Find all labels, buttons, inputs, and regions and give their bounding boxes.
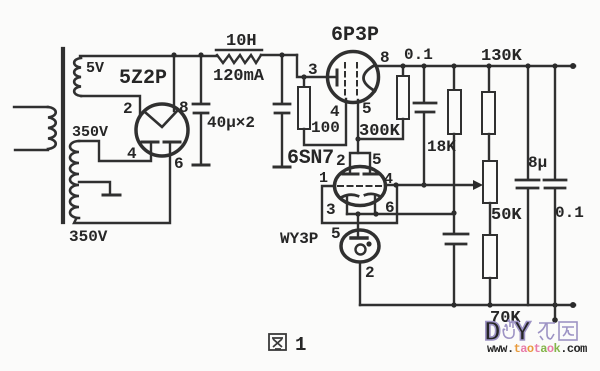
capacitor cathode bypass lead: [453, 213, 455, 233]
wiper arrowhead: [473, 180, 483, 190]
svg-text:10H: 10H: [226, 32, 257, 51]
resistor 300K body: [397, 76, 409, 119]
resistor 300K top lead: [402, 66, 404, 76]
node rail 0.1: [421, 63, 426, 68]
5Z2P plate bar left pin4: [142, 141, 158, 144]
wire rail corner down to 6P3P plate: [297, 55, 336, 77]
node rail 300K: [400, 63, 405, 68]
svg-text:40µ×2: 40µ×2: [207, 114, 255, 132]
svg-text:5V: 5V: [86, 60, 104, 77]
svg-text:6: 6: [174, 155, 184, 173]
svg-text:5: 5: [331, 225, 341, 243]
svg-text:300K: 300K: [359, 122, 401, 141]
wire cathode line: [347, 213, 454, 215]
potentiometer 50K body: [483, 161, 497, 203]
capacitor 40u no.2 top lead: [281, 55, 283, 103]
svg-text:0.1: 0.1: [555, 204, 584, 222]
node 100 ohm top: [301, 74, 306, 79]
transformer core: [61, 49, 65, 222]
ground: [103, 194, 120, 197]
6SN7 plate bars: [343, 173, 379, 176]
capacitor 8u bottom lead: [527, 189, 529, 305]
svg-text:8: 8: [380, 49, 390, 67]
capacitor 40u no.2 bottom lead: [281, 114, 283, 166]
svg-text:4: 4: [127, 145, 137, 163]
svg-text:120mA: 120mA: [213, 67, 265, 86]
wire pin 8 to rail: [173, 55, 175, 111]
resistor 70K body: [483, 235, 497, 278]
resistor 130K body: [482, 92, 495, 134]
node pin4: [393, 182, 398, 187]
svg-text:100: 100: [311, 119, 340, 137]
node cathode 18K: [451, 210, 456, 215]
capacitor 0.1 coupling bottom lead: [423, 113, 425, 185]
capacitor 40u no.1 top lead: [200, 55, 202, 103]
wire 5V bottom to pin 2: [81, 96, 140, 115]
capacitor 0.1 coupling top lead: [423, 66, 425, 102]
node bus 0.1: [552, 302, 557, 307]
wire rail after choke: [261, 54, 297, 56]
6SN7 grid dashes: [338, 185, 382, 187]
hanzi yuan: [559, 322, 577, 340]
node rail cap1: [198, 52, 203, 57]
capacitor 0.1 output bottom lead: [554, 189, 556, 305]
tube 5Z2P envelope: [136, 104, 188, 156]
transformer primary lead bottom: [15, 149, 48, 151]
node cathode WY3P tap: [355, 211, 360, 216]
6P3P grid dashes: [345, 63, 357, 98]
stub below bus: [554, 305, 556, 318]
node rail 130K: [486, 63, 491, 68]
svg-text:4: 4: [384, 171, 393, 188]
5Z2P filament: [146, 111, 177, 127]
svg-text:3: 3: [326, 201, 336, 219]
svg-text:2: 2: [336, 152, 346, 170]
node pin5 300K: [355, 136, 360, 141]
svg-text:3: 3: [308, 61, 318, 79]
watermark DIY leyuan: [484, 318, 577, 349]
node rail 0.1 output: [552, 63, 557, 68]
capacitor 0.1 coupling plates: [414, 103, 436, 112]
svg-text:5: 5: [362, 100, 372, 118]
wire 70K to bus: [489, 278, 491, 305]
svg-text:5: 5: [372, 151, 382, 169]
6SN7 cathode bars: [342, 194, 381, 197]
node cathode right lead: [373, 211, 378, 216]
capacitor 40u no.1 bottom lead: [200, 114, 202, 164]
wire grid tie box pins 1-4: [322, 186, 397, 223]
wire pin4 grid to pot wiper: [385, 184, 477, 186]
svg-text:5Z2P: 5Z2P: [119, 67, 167, 90]
tube WY3P envelope: [341, 230, 379, 262]
wire 50K to 70K: [489, 203, 491, 235]
node grid line 0.1: [421, 182, 426, 187]
6P3P plate bar: [336, 70, 339, 85]
resistor 18K bottom lead: [453, 134, 455, 213]
resistor 100 bottom lead to pin4: [304, 99, 346, 145]
svg-text:1: 1: [319, 170, 328, 187]
node rail cap2: [279, 52, 284, 57]
tube 6P3P envelope: [328, 52, 379, 103]
transformer primary winding: [48, 107, 56, 149]
resistor 300K bottom lead: [358, 119, 403, 139]
wire pin5 down: [357, 100, 359, 153]
6SN7 plate tie box: [350, 153, 370, 174]
node bus end terminal: [570, 302, 576, 308]
capacitor cathode bypass plates: [444, 234, 468, 244]
svg-text:WY3P: WY3P: [280, 230, 318, 248]
svg-text:8µ: 8µ: [528, 154, 547, 172]
node rail 18K: [451, 63, 456, 68]
capacitor 8u plates: [516, 180, 539, 188]
HV secondary winding 350V-350V: [70, 141, 79, 218]
svg-text:350V: 350V: [72, 124, 108, 141]
capacitor cathode bypass bottom lead: [453, 245, 455, 305]
svg-text:6: 6: [385, 199, 395, 217]
svg-text:8: 8: [179, 99, 189, 117]
transformer primary lead top: [14, 106, 48, 108]
svg-text:2: 2: [365, 264, 375, 282]
wire WY3P pin2 down: [359, 262, 361, 305]
capacitor 0.1 output top lead: [554, 66, 556, 179]
node rail pin8: [171, 52, 176, 57]
node rail 8u: [525, 63, 530, 68]
center tap wire: [79, 182, 110, 194]
hand glyph: [503, 320, 514, 338]
capacitor 0.1 output plates: [544, 180, 566, 188]
wire 6P3P cathode pin8 rail: [376, 65, 575, 67]
wire pin4 plate to HV winding top: [79, 141, 151, 161]
svg-text:www.taotaok.com: www.taotaok.com: [487, 342, 587, 356]
wire pin6 plate to HV winding bottom: [74, 143, 170, 223]
ground bar cap2: [274, 166, 290, 169]
6SN7 cathode leads: [347, 196, 375, 214]
resistor 18K body: [448, 90, 461, 134]
node rail end terminal: [570, 63, 576, 69]
svg-text:6P3P: 6P3P: [331, 24, 379, 47]
tube 6SN7 envelope: [335, 167, 386, 206]
caption tu 1 : hand drawn 图: [269, 334, 286, 350]
svg-text:0.1: 0.1: [404, 46, 433, 64]
node bus 70K: [487, 302, 492, 307]
capacitor 8u top lead: [527, 66, 529, 179]
wire WY3P anode lead: [357, 214, 359, 237]
6P3P cathode arc: [364, 65, 376, 91]
svg-text:2: 2: [123, 100, 133, 118]
wire bottom bus: [360, 304, 575, 306]
WY3P anode bar: [351, 236, 367, 239]
capacitor 40u no.2 plates: [274, 104, 290, 113]
resistor 18K top lead: [453, 66, 455, 90]
svg-text:50K: 50K: [491, 206, 522, 225]
5V filament winding: [74, 58, 81, 96]
svg-text:350V: 350V: [69, 228, 108, 246]
choke 10H core line: [216, 49, 262, 52]
resistor 100 body: [298, 87, 310, 129]
resistor 100 top lead: [303, 77, 305, 87]
WY3P cathode circle: [356, 245, 366, 255]
capacitor 40u no.1 plates: [193, 104, 209, 113]
5Z2P plate bar right pin6: [164, 141, 180, 144]
svg-text:18K: 18K: [427, 138, 456, 156]
svg-text:130K: 130K: [481, 47, 523, 66]
choke 10H winding: [217, 55, 261, 63]
WY3P gas dot: [366, 241, 371, 246]
node bus cap: [451, 302, 456, 307]
wire B+ rail left: [80, 55, 217, 57]
ground bar cap1: [193, 164, 209, 167]
wire 130K to 50K: [488, 134, 490, 161]
svg-text:6SN7: 6SN7: [287, 147, 334, 170]
resistor 130K top lead: [488, 66, 490, 92]
hanzi le: [538, 323, 555, 340]
svg-text:1: 1: [295, 334, 306, 356]
